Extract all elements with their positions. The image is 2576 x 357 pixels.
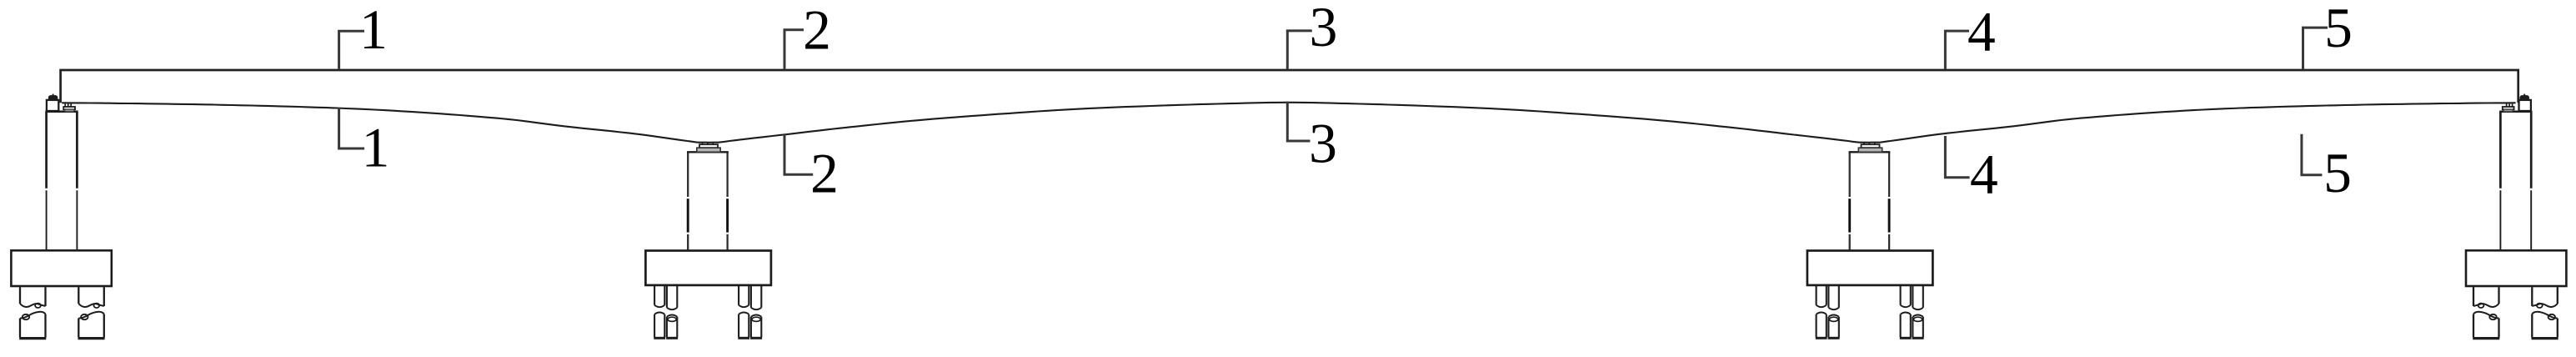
svg-text:3: 3 xyxy=(1309,113,1337,175)
svg-text:4: 4 xyxy=(1970,143,1998,206)
svg-text:1: 1 xyxy=(362,116,390,178)
svg-text:5: 5 xyxy=(2324,0,2353,59)
svg-text:4: 4 xyxy=(1967,1,1996,63)
svg-text:2: 2 xyxy=(803,0,831,61)
svg-text:3: 3 xyxy=(1310,0,1338,58)
svg-text:1: 1 xyxy=(359,0,388,61)
svg-text:2: 2 xyxy=(810,142,839,204)
svg-text:5: 5 xyxy=(2323,142,2352,204)
